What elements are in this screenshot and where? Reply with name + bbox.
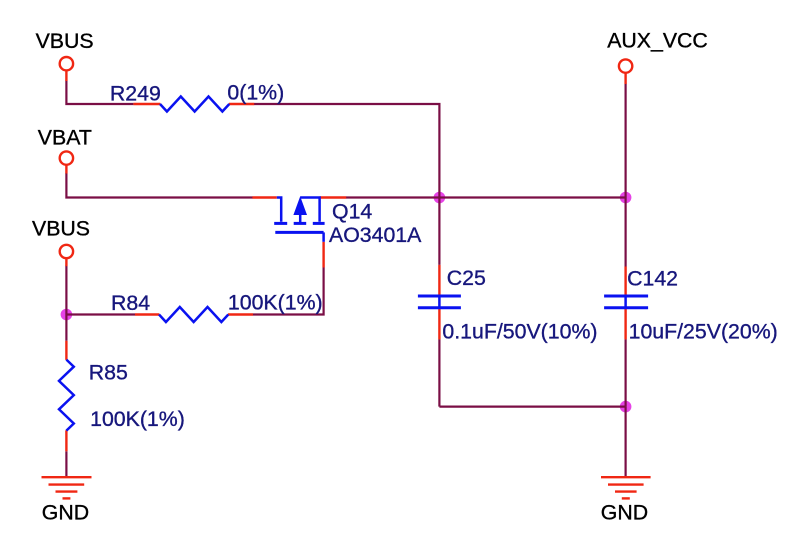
capacitor C142: [604, 267, 648, 340]
label R249: [110, 82, 161, 106]
wire bottom tee down to right ground: [624, 407, 626, 477]
label R84: [111, 291, 150, 315]
junction node at AUX_VCC tee: [620, 192, 632, 204]
wire R84 right pin to Q14 gate column: [253, 268, 324, 315]
resistor R84: [135, 307, 253, 322]
svg-text:R85: R85: [89, 361, 128, 385]
wire AUX tee down to C142 top pin: [624, 198, 626, 267]
svg-text:0(1%): 0(1%): [227, 80, 284, 104]
power port VBUS top-left: [60, 57, 73, 81]
wire tee down to R85 top pin: [65, 315, 67, 341]
label C25: [447, 266, 486, 290]
svg-text:VBAT: VBAT: [38, 126, 92, 150]
svg-text:GND: GND: [601, 501, 648, 525]
svg-text:C25: C25: [447, 266, 486, 290]
label GND right: [601, 501, 648, 525]
label Q14: [332, 199, 372, 223]
transistor Q14 (P-MOSFET AO3401A): [252, 198, 346, 268]
capacitor C25: [418, 265, 461, 340]
resistor R85: [59, 341, 74, 452]
resistor R249: [133, 97, 254, 112]
wire VBUS1 down and right to R249 left pin: [66, 80, 133, 104]
net label AUX_VCC: [607, 29, 708, 53]
ground symbol left: [42, 477, 92, 498]
svg-text:VBUS: VBUS: [32, 217, 90, 241]
svg-text:100K(1%): 100K(1%): [228, 290, 323, 314]
net label VBUS: [36, 29, 94, 53]
svg-text:AUX_VCC: AUX_VCC: [607, 29, 708, 53]
wire VBUS2 down to tee: [65, 266, 67, 315]
svg-text:R249: R249: [110, 82, 161, 106]
wire C25 bottom to bottom rail: [438, 339, 440, 406]
value 100K(1%): [228, 290, 323, 314]
label GND left: [42, 501, 89, 525]
label C142: [627, 266, 678, 290]
svg-text:10uF/25V(20%): 10uF/25V(20%): [629, 320, 778, 344]
wire junction down to C25 top pin: [438, 198, 440, 265]
wire AUX_VCC down to tee: [624, 84, 626, 198]
svg-text:VBUS: VBUS: [36, 29, 94, 53]
junction node at C142 bottom tee: [620, 401, 632, 413]
junction node at R249/VBAT/C25 cross: [434, 192, 446, 204]
value 0(1%): [227, 80, 284, 104]
svg-text:AO3401A: AO3401A: [329, 223, 422, 247]
power port AUX_VCC: [619, 59, 632, 84]
svg-text:100K(1%): 100K(1%): [90, 407, 185, 431]
power port VBUS lower-left: [60, 245, 73, 266]
value AO3401A: [329, 223, 422, 247]
svg-text:R84: R84: [111, 291, 150, 315]
svg-text:GND: GND: [42, 501, 89, 525]
wire tee right to R84 left pin: [66, 313, 135, 315]
junction node at VBUS/R84/R85 tee: [61, 309, 73, 321]
value 100K(1%): [90, 407, 185, 431]
svg-text:0.1uF/50V(10%): 0.1uF/50V(10%): [442, 320, 597, 344]
wire bottom rail C25 to C142: [439, 406, 625, 408]
wire R85 bottom to left ground: [65, 451, 67, 476]
wire C142 bottom to bottom tee: [624, 339, 626, 406]
wire Q14 drain to AUX_VCC column: [346, 196, 626, 198]
net label VBUS: [32, 217, 90, 241]
label R85: [89, 361, 128, 385]
power port VBAT: [60, 151, 73, 173]
value 10uF/25V(20%): [629, 320, 778, 344]
svg-text:C142: C142: [627, 266, 678, 290]
svg-text:Q14: Q14: [332, 199, 372, 223]
net label VBAT: [38, 126, 92, 150]
value 0.1uF/50V(10%): [442, 320, 597, 344]
ground symbol right: [601, 477, 651, 498]
wire VBAT down and right to Q14 source pin: [66, 173, 252, 198]
wire R249 right pin to corner down to junction: [254, 104, 440, 198]
